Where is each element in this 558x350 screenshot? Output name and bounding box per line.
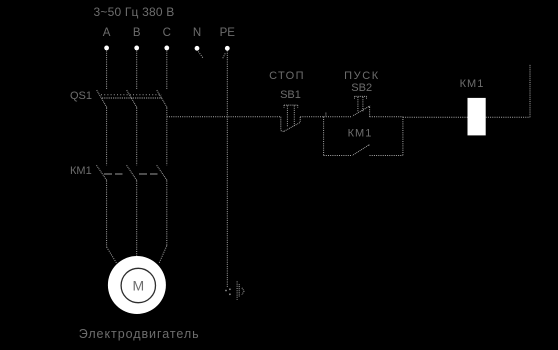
disconnector QS1 blade pole B [127,90,137,108]
wire phase C QS1 to KM1 [166,108,168,166]
wire phase A QS1 to KM1 [106,108,108,166]
wire phase C drop to QS1 [166,51,168,90]
wire phase B KM1 to motor [136,181,138,257]
disconnector QS1 blade pole A [97,90,107,108]
svg-text:3~50 Гц 380 В: 3~50 Гц 380 В [93,5,174,19]
terminal B [134,46,139,51]
wire phase A KM1 to motor [106,181,108,247]
svg-text:B: B [133,27,141,39]
wire phase B drop to QS1 [136,51,138,90]
svg-text:SB1: SB1 [280,89,301,101]
node branch junction tick [325,113,327,117]
pushbutton SB1 NC contact [281,117,301,132]
svg-text:М: М [132,278,144,294]
disconnector QS1 linkage dashed upper [101,94,162,96]
wire PE down line [226,51,228,288]
disconnector QS1 linkage dashed lower [102,97,162,99]
svg-text:QS1: QS1 [70,90,92,102]
contactor KM1 linkage dashes [104,173,158,175]
svg-text:PE: PE [220,27,236,39]
contactor KM1 main contact pole B [127,165,137,180]
wire holding branch bottom right [370,155,403,157]
svg-text:КМ1: КМ1 [70,165,92,177]
svg-text:КМ1: КМ1 [348,128,373,140]
wire branch node to SB2 [324,116,353,118]
wire holding branch left vertical [323,117,325,156]
wire SB1 to branch node [300,116,323,118]
motor M1 body [108,256,166,314]
terminal PE [225,46,230,51]
terminal N [195,46,200,51]
svg-text:ПУСК: ПУСК [344,70,380,82]
svg-text:C: C [163,27,171,39]
wire SB2 to right branch node [370,116,403,118]
PE connector bar dashed [236,281,238,299]
wire coil KM1 to corner [486,116,530,118]
svg-text:N: N [193,27,201,39]
pushbutton SB1 actuator [284,105,298,127]
wire phase B QS1 to KM1 [136,108,138,166]
wire PE tail [223,53,225,58]
disconnector QS1 blade pole C [157,90,167,108]
PE connector dots [225,288,231,295]
wire neutral stub [198,52,203,59]
wire phase C KM1 to motor [166,181,168,246]
wire phase A motor lead-in [107,247,117,263]
svg-text:КМ1: КМ1 [460,78,485,90]
PE connector chevron [242,288,244,295]
motor M1 inner circle [121,268,155,302]
wire return riser [529,64,531,117]
pushbutton SB2 actuator [355,96,367,111]
wire holding branch bottom left [324,155,353,157]
wire phase A drop to QS1 [106,51,108,90]
svg-text:A: A [103,27,111,39]
contactor KM1 main contact pole C [157,165,168,180]
pushbutton SB2 NO contact [353,106,370,117]
contact KM1 auxiliary NO [353,145,370,155]
wire phase C motor lead-in [159,246,167,263]
terminal A [104,46,109,51]
coil KM1 [468,98,486,135]
wire control line tap from phase C [167,116,281,118]
wire to coil KM1 [403,116,468,118]
svg-text:Электродвигатель: Электродвигатель [79,327,200,341]
contactor KM1 main contact pole A [97,165,107,180]
terminal C [164,46,169,51]
wire holding branch right vertical [402,117,404,156]
svg-text:SB2: SB2 [351,82,372,94]
svg-text:СТОП: СТОП [269,70,305,82]
PE connector bar solid [238,284,240,297]
